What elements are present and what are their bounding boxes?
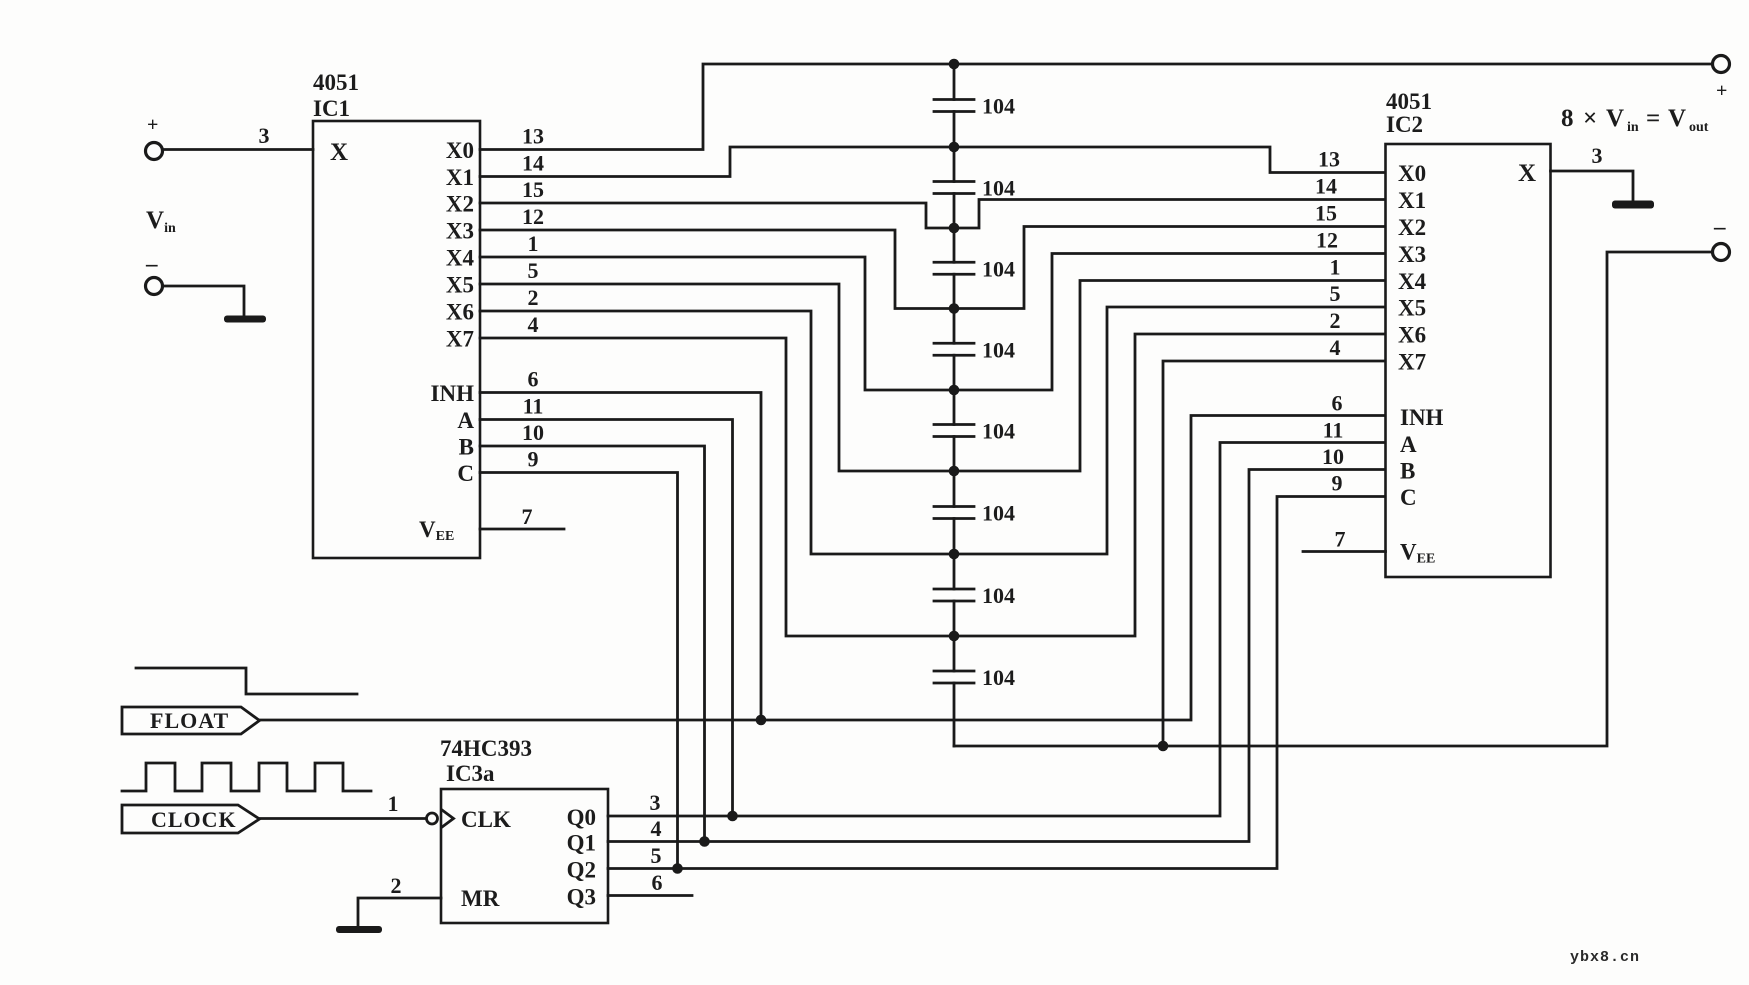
op IC2 4051 analog mux box xyxy=(1386,144,1551,577)
wire net A: IC1 A pin11 down to Q0 line xyxy=(480,420,733,817)
junction node n4 xyxy=(949,385,960,396)
ground (IC3a MR) xyxy=(336,926,382,933)
CLOCK timing waveform xyxy=(122,763,371,791)
svg-text:B: B xyxy=(459,435,474,460)
svg-text:104: 104 xyxy=(982,501,1015,526)
svg-text:3: 3 xyxy=(650,790,661,815)
svg-text:5: 5 xyxy=(651,843,662,868)
node CLOCK signal tag xyxy=(122,805,260,833)
svg-text:X1: X1 xyxy=(1398,188,1426,213)
wire IC2 X pin 3 to ground xyxy=(1551,171,1634,201)
svg-text:+: + xyxy=(1716,80,1727,102)
wire net X0: IC1 X0 pin13 up to + rail, + output rail xyxy=(480,64,1712,150)
wire net n1: IC1 X1 pin14 to node n1 and on to IC2 X0 pin13 xyxy=(480,147,1385,177)
svg-text:104: 104 xyxy=(982,94,1015,119)
svg-text:X7: X7 xyxy=(446,327,474,352)
svg-text:4: 4 xyxy=(1330,335,1341,360)
svg-text:1: 1 xyxy=(388,791,399,816)
node FLOAT signal tag xyxy=(122,707,260,734)
junction + rail / C1 top xyxy=(949,59,960,70)
FLOAT timing waveform xyxy=(136,668,357,694)
svg-text:Vin: Vin xyxy=(146,207,176,236)
svg-text:X1: X1 xyxy=(446,165,474,190)
svg-text:4051: 4051 xyxy=(313,70,359,95)
svg-text:4: 4 xyxy=(651,816,662,841)
svg-text:8×Vin=Vout: 8×Vin=Vout xyxy=(1561,105,1709,135)
junction node n7 xyxy=(949,631,960,642)
svg-text:Q1: Q1 xyxy=(567,831,596,856)
svg-text:104: 104 xyxy=(982,256,1015,281)
clock input arrow (IC3a CLK) xyxy=(442,810,454,827)
svg-text:Q0: Q0 xyxy=(567,805,596,830)
svg-text:74HC393: 74HC393 xyxy=(440,736,532,761)
wire net n4: IC1 X4 pin1 dip to node n4, up to IC2 X3 pin12 xyxy=(480,254,1385,391)
junction INH/FLOAT xyxy=(756,715,767,726)
wire Q3 stub pin 6 xyxy=(608,894,692,897)
svg-text:12: 12 xyxy=(1316,228,1338,253)
svg-text:14: 14 xyxy=(522,151,544,176)
junction node n5 xyxy=(949,466,960,477)
wire CLOCK to IC3a CLK pin 1 xyxy=(260,817,427,820)
wire Q1 to IC2 B pin10 xyxy=(608,470,1385,842)
wire net INH: IC1 INH pin6 down to FLOAT line xyxy=(480,393,761,721)
svg-text:X2: X2 xyxy=(446,192,474,217)
wire net n3: IC1 X3 pin12 dip to node n3, up to IC2 X2 pin15 xyxy=(480,227,1385,309)
svg-text:MR: MR xyxy=(461,886,500,911)
svg-text:11: 11 xyxy=(1323,418,1344,443)
junction node n1 xyxy=(949,142,960,153)
svg-text:A: A xyxy=(457,408,474,433)
wire net B: IC1 B pin10 down to Q1 line xyxy=(480,446,705,842)
svg-text:VEE: VEE xyxy=(419,517,454,544)
svg-text:15: 15 xyxy=(1315,201,1337,226)
clock input bubble (IC3a CLK) xyxy=(427,813,438,824)
wire IC1 VEE stub pin 7 xyxy=(480,528,564,531)
svg-text:7: 7 xyxy=(1335,527,1346,552)
terminal Vout - xyxy=(1713,244,1730,261)
svg-text:104: 104 xyxy=(982,419,1015,444)
svg-text:X5: X5 xyxy=(446,273,474,298)
wire IC2 X7 pin4 down to - line xyxy=(1163,361,1385,746)
svg-text:13: 13 xyxy=(522,124,544,149)
svg-text:X3: X3 xyxy=(1398,242,1426,267)
svg-text:2: 2 xyxy=(391,873,402,898)
svg-text:13: 13 xyxy=(1318,147,1340,172)
capacitor C8 104 xyxy=(934,636,974,746)
svg-text:6: 6 xyxy=(528,367,539,392)
junction B/Q1 xyxy=(699,836,710,847)
wire - output line from C8 bottom to - terminal xyxy=(954,252,1712,746)
junction X7/- line xyxy=(1158,741,1169,752)
svg-text:X7: X7 xyxy=(1398,350,1426,375)
svg-text:1: 1 xyxy=(1330,255,1341,280)
svg-text:7: 7 xyxy=(522,504,533,529)
svg-text:FLOAT: FLOAT xyxy=(150,708,229,733)
svg-text:X5: X5 xyxy=(1398,296,1426,321)
svg-text:12: 12 xyxy=(522,204,544,229)
svg-text:IC1: IC1 xyxy=(313,96,350,121)
svg-text:2: 2 xyxy=(1330,308,1341,333)
svg-text:X: X xyxy=(1518,160,1536,187)
svg-text:INH: INH xyxy=(431,381,475,406)
svg-text:10: 10 xyxy=(522,420,544,445)
capacitor C6 104 xyxy=(934,471,974,554)
svg-text:B: B xyxy=(1400,459,1415,484)
wire net n5: IC1 X5 pin5 dip to node n5, up to IC2 X4 pin1 xyxy=(480,281,1385,472)
svg-text:3: 3 xyxy=(259,123,270,148)
svg-text:C: C xyxy=(1400,485,1417,510)
wire Q0 to IC2 A pin11 xyxy=(608,443,1385,817)
junction node n3 xyxy=(949,303,960,314)
svg-text:X3: X3 xyxy=(446,219,474,244)
svg-text:IC2: IC2 xyxy=(1386,112,1423,137)
svg-text:11: 11 xyxy=(523,394,544,419)
svg-text:X6: X6 xyxy=(1398,323,1426,348)
svg-text:X4: X4 xyxy=(446,246,475,271)
svg-text:10: 10 xyxy=(1322,444,1344,469)
svg-text:CLK: CLK xyxy=(461,807,511,832)
svg-text:VEE: VEE xyxy=(1400,540,1435,567)
svg-text:2: 2 xyxy=(528,285,539,310)
svg-text:–: – xyxy=(1713,214,1726,239)
svg-text:X: X xyxy=(330,139,348,166)
svg-text:3: 3 xyxy=(1592,143,1603,168)
svg-text:X4: X4 xyxy=(1398,269,1427,294)
svg-text:4: 4 xyxy=(528,312,539,337)
capacitor C2 104 xyxy=(934,147,974,228)
svg-text:6: 6 xyxy=(652,870,663,895)
wire net C: IC1 C pin9 down to Q2 line xyxy=(480,473,678,869)
svg-text:X0: X0 xyxy=(1398,161,1426,186)
terminal Vout + xyxy=(1713,56,1730,73)
capacitor C3 104 xyxy=(934,228,974,309)
junction C/Q2 xyxy=(672,863,683,874)
svg-text:+: + xyxy=(147,114,158,136)
svg-text:9: 9 xyxy=(528,447,539,472)
svg-text:INH: INH xyxy=(1400,405,1444,430)
op IC1 4051 analog mux box xyxy=(313,121,480,558)
svg-text:104: 104 xyxy=(982,665,1015,690)
svg-text:104: 104 xyxy=(982,337,1015,362)
svg-text:X0: X0 xyxy=(446,138,474,163)
svg-text:4051: 4051 xyxy=(1386,89,1432,114)
junction node n6 xyxy=(949,549,960,560)
svg-text:Q2: Q2 xyxy=(567,858,596,883)
svg-text:–: – xyxy=(145,251,158,276)
op IC3a 74HC393 counter box xyxy=(441,789,608,923)
ground (IC2 X output) xyxy=(1612,201,1654,209)
wire MR pin2 to ground xyxy=(358,898,441,927)
capacitor C5 104 xyxy=(934,390,974,471)
wire Vin- to ground xyxy=(163,286,244,316)
wire net n7: IC1 X7 pin4 dip to node n7, up to IC2 X6 pin2 xyxy=(480,334,1385,636)
wire IC2 VEE stub pin 7 xyxy=(1303,550,1386,553)
terminal Vin + xyxy=(146,143,163,160)
svg-text:104: 104 xyxy=(982,176,1015,201)
svg-text:1: 1 xyxy=(528,231,539,256)
svg-text:9: 9 xyxy=(1332,471,1343,496)
wire net n6: IC1 X6 pin2 dip to node n6, up to IC2 X5 pin5 xyxy=(480,307,1385,554)
svg-text:A: A xyxy=(1400,432,1417,457)
capacitor C4 104 xyxy=(934,309,974,391)
wire FLOAT line to IC2 INH pin6 xyxy=(260,416,1386,721)
svg-text:5: 5 xyxy=(528,258,539,283)
svg-text:IC3a: IC3a xyxy=(446,761,495,786)
wire net n2: IC1 X2 pin15 dip to node n2, up to IC2 X1 pin14 xyxy=(480,200,1385,229)
wire Q2 to IC2 C pin9 xyxy=(608,497,1385,869)
svg-text:CLOCK: CLOCK xyxy=(151,807,237,832)
svg-text:X6: X6 xyxy=(446,300,474,325)
svg-text:X2: X2 xyxy=(1398,215,1426,240)
junction node n2 xyxy=(949,223,960,234)
svg-text:Q3: Q3 xyxy=(567,885,596,910)
svg-text:14: 14 xyxy=(1315,174,1337,199)
ground (Vin -) xyxy=(224,316,266,323)
terminal Vin - xyxy=(146,278,163,295)
svg-text:6: 6 xyxy=(1332,391,1343,416)
svg-text:15: 15 xyxy=(522,177,544,202)
capacitor C1 104 xyxy=(934,64,974,147)
svg-text:5: 5 xyxy=(1330,281,1341,306)
wire Vin+ to IC1 pin 3 xyxy=(163,148,313,151)
svg-text:104: 104 xyxy=(982,583,1015,608)
svg-text:C: C xyxy=(457,461,474,486)
capacitor C7 104 xyxy=(934,554,974,636)
junction A/Q0 xyxy=(727,811,738,822)
svg-text:ybx8.cn: ybx8.cn xyxy=(1570,949,1640,966)
